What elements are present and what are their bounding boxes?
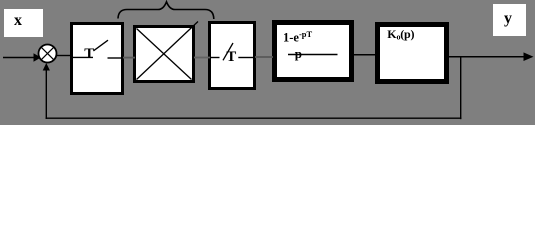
wire junction to U1 bbox=[57, 55, 73, 57]
U3 inner output wire bbox=[238, 57, 254, 59]
feedback bottom wire bbox=[46, 117, 462, 119]
node y label text bbox=[504, 11, 512, 27]
feedback riser wire bbox=[45, 70, 47, 120]
output label box y bbox=[493, 4, 526, 36]
multiplier block U2 (crossed square) bbox=[133, 25, 195, 83]
sampler block U3 (switch T) bbox=[208, 21, 256, 90]
ZOH block U4 (1-e^-pT over p) bbox=[272, 20, 354, 82]
U1 switch arm bbox=[94, 40, 109, 51]
wire U1 to U2 (faint) bbox=[123, 57, 135, 59]
U2 cross diagonal TL-BR bbox=[137, 29, 192, 80]
U1 value label T bbox=[84, 47, 94, 62]
U1 inner input wire bbox=[72, 56, 93, 58]
wire U2 to U3 (faint) bbox=[194, 57, 210, 59]
U4 denominator label p bbox=[295, 47, 302, 60]
U1 inner output wire bbox=[108, 57, 123, 59]
feedback tap wire down bbox=[460, 57, 462, 119]
summing junction cross line 1 bbox=[41, 47, 53, 59]
U4 numerator label 1-e^-pT bbox=[283, 30, 312, 44]
wire U4 to U5 bbox=[353, 54, 376, 56]
overbrace bbox=[118, 2, 214, 19]
sampler block U1 (switch T) bbox=[70, 22, 124, 95]
U3 switch arm bbox=[223, 43, 233, 60]
output wire bbox=[449, 56, 524, 58]
plant block U5 Ko(p) bbox=[375, 22, 449, 84]
output arrowhead bbox=[524, 52, 534, 61]
summing junction circle bbox=[39, 45, 57, 63]
feedback arrowhead into junction bbox=[43, 63, 50, 71]
input label box x bbox=[4, 9, 43, 37]
U3 inner input wire bbox=[211, 57, 220, 59]
wire U3 to U4 (faint) bbox=[255, 56, 273, 58]
summing junction cross line 2 bbox=[41, 47, 53, 59]
input arrow wire bbox=[3, 57, 34, 59]
U3 value label T bbox=[226, 50, 236, 65]
U4 fraction bar bbox=[288, 54, 338, 56]
U5 value label Ko(p) bbox=[387, 28, 414, 42]
U2 cross diagonal BL-TR with overshoot bbox=[137, 22, 199, 80]
node x label text bbox=[14, 13, 22, 29]
input arrowhead bbox=[34, 53, 42, 61]
